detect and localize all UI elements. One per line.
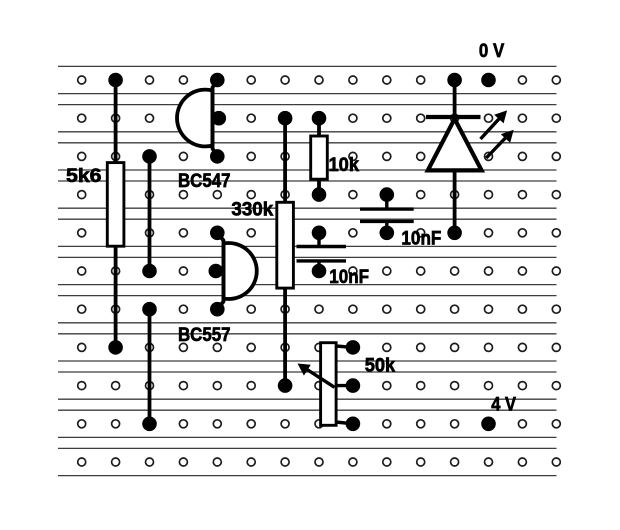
LED light arrow 2 <box>486 130 514 158</box>
svg-text:0 V: 0 V <box>479 40 504 62</box>
capacitor C2 10nF <box>360 187 414 240</box>
LED D1 <box>426 73 482 240</box>
wire link W2 <box>142 302 157 431</box>
svg-text:10k: 10k <box>329 154 360 176</box>
potentiometer VR1 50k <box>298 340 361 431</box>
stripboard holes <box>78 76 561 466</box>
capacitor C1 10nF <box>297 226 347 279</box>
resistor R2 330k <box>277 111 294 393</box>
svg-text:4 V: 4 V <box>491 393 516 415</box>
svg-text:10nF: 10nF <box>401 227 441 249</box>
LED light arrow 1 <box>481 110 508 139</box>
svg-text:BC547: BC547 <box>178 170 231 192</box>
resistor R3 10k <box>311 111 328 202</box>
transistor Q2 BC557 <box>209 226 257 317</box>
svg-text:330k: 330k <box>231 198 273 220</box>
wire link W1 <box>142 149 157 278</box>
stripboard copper strips <box>58 66 557 475</box>
svg-text:5k6: 5k6 <box>66 165 102 187</box>
resistor R1 5k6 <box>107 73 124 355</box>
svg-text:10nF: 10nF <box>329 266 369 288</box>
svg-text:50k: 50k <box>365 355 396 377</box>
svg-text:BC557: BC557 <box>178 324 231 346</box>
node 4V supply <box>481 417 496 432</box>
transistor Q1 BC547 <box>177 73 226 164</box>
node 0V supply <box>481 73 496 88</box>
